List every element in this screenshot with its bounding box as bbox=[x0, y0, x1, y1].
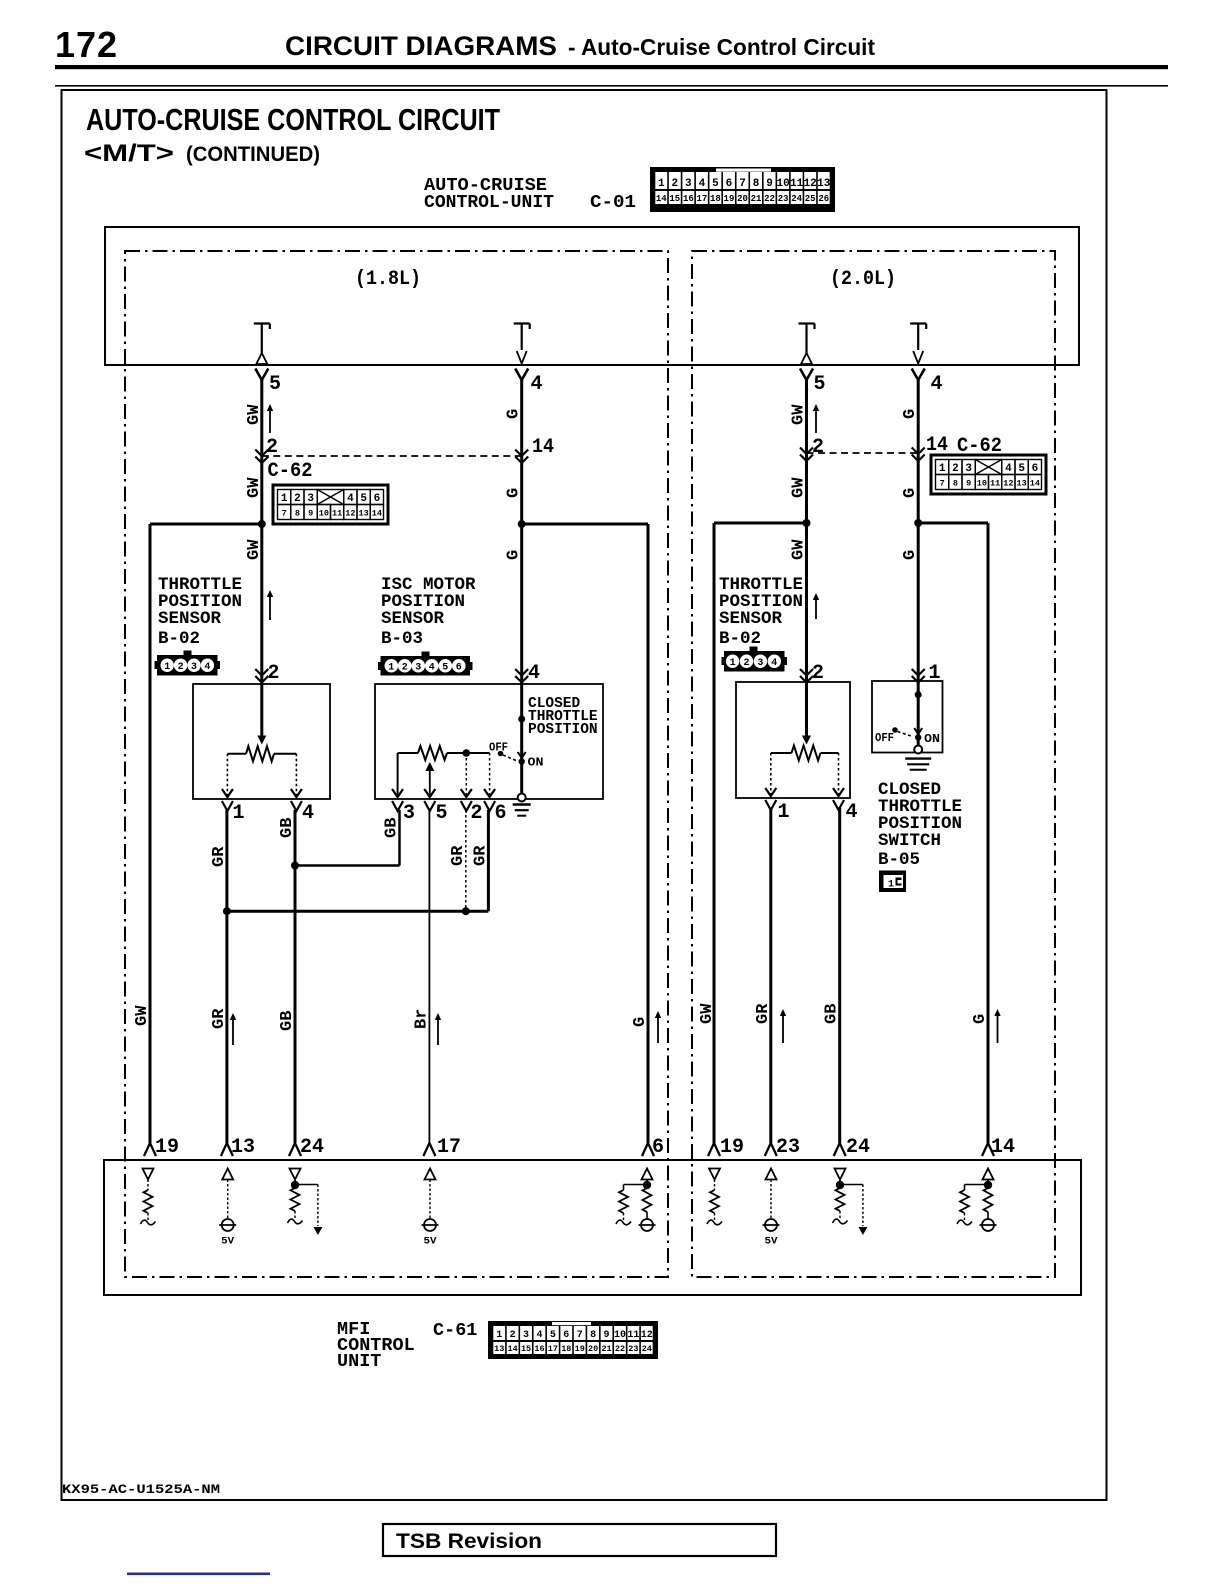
svg-text:24: 24 bbox=[642, 1344, 652, 1354]
svg-text:17: 17 bbox=[696, 194, 707, 204]
svg-text:10: 10 bbox=[977, 479, 987, 489]
svg-text:GW: GW bbox=[698, 1003, 717, 1024]
svg-text:8: 8 bbox=[295, 509, 300, 519]
svg-text:13: 13 bbox=[1017, 479, 1027, 489]
svg-text:6: 6 bbox=[1032, 463, 1039, 475]
svg-text:G: G bbox=[631, 1017, 650, 1027]
svg-text:1: 1 bbox=[778, 801, 790, 824]
svg-text:22: 22 bbox=[764, 194, 775, 204]
svg-text:C-61: C-61 bbox=[433, 1320, 477, 1341]
svg-text:GW: GW bbox=[245, 477, 264, 498]
svg-text:4: 4 bbox=[531, 373, 543, 396]
svg-text:1: 1 bbox=[929, 662, 941, 685]
svg-text:C-01: C-01 bbox=[590, 193, 636, 213]
svg-text:10: 10 bbox=[614, 1330, 626, 1341]
svg-text:8: 8 bbox=[753, 178, 760, 190]
svg-text:ON: ON bbox=[528, 756, 544, 770]
svg-text:12: 12 bbox=[1003, 479, 1013, 489]
svg-text:16: 16 bbox=[683, 194, 694, 204]
svg-text:5: 5 bbox=[360, 493, 367, 505]
svg-text:9: 9 bbox=[604, 1330, 610, 1341]
svg-text:21: 21 bbox=[601, 1344, 611, 1354]
svg-text:4: 4 bbox=[846, 801, 858, 824]
svg-text:B-02: B-02 bbox=[158, 629, 200, 649]
svg-text:1: 1 bbox=[730, 658, 736, 669]
svg-text:(1.8L): (1.8L) bbox=[355, 268, 421, 291]
svg-text:5: 5 bbox=[814, 373, 826, 396]
svg-text:6: 6 bbox=[495, 802, 507, 825]
svg-text:3: 3 bbox=[403, 802, 415, 825]
svg-text:G: G bbox=[901, 409, 920, 419]
svg-text:7: 7 bbox=[282, 509, 287, 519]
svg-text:4: 4 bbox=[1005, 463, 1012, 475]
svg-text:G: G bbox=[505, 550, 524, 560]
svg-text:4: 4 bbox=[302, 802, 314, 825]
svg-text:1: 1 bbox=[496, 1330, 502, 1341]
svg-text:10: 10 bbox=[777, 178, 790, 190]
svg-text:17: 17 bbox=[437, 1136, 461, 1159]
svg-text:4: 4 bbox=[347, 493, 354, 505]
svg-text:14: 14 bbox=[532, 436, 554, 459]
svg-text:21: 21 bbox=[751, 194, 762, 204]
svg-text:9: 9 bbox=[766, 178, 773, 190]
svg-text:7: 7 bbox=[739, 178, 746, 190]
svg-text:TSB Revision: TSB Revision bbox=[396, 1530, 542, 1553]
svg-text:26: 26 bbox=[818, 194, 829, 204]
svg-text:(2.0L): (2.0L) bbox=[830, 268, 896, 291]
svg-text:G: G bbox=[901, 488, 920, 498]
svg-text:13: 13 bbox=[817, 178, 831, 190]
svg-text:1: 1 bbox=[658, 178, 665, 190]
svg-text:GW: GW bbox=[133, 1005, 152, 1026]
svg-text:14: 14 bbox=[1030, 479, 1040, 489]
svg-text:18: 18 bbox=[710, 194, 721, 204]
svg-text:GW: GW bbox=[790, 477, 809, 498]
svg-text:- Auto-Cruise Control Circuit: - Auto-Cruise Control Circuit bbox=[568, 34, 875, 60]
svg-text:7: 7 bbox=[577, 1330, 583, 1341]
svg-text:GR: GR bbox=[449, 845, 468, 866]
svg-text:2: 2 bbox=[266, 436, 278, 459]
svg-text:1: 1 bbox=[281, 493, 288, 505]
svg-text:5: 5 bbox=[442, 662, 448, 673]
svg-text:15: 15 bbox=[669, 194, 680, 204]
svg-text:12: 12 bbox=[345, 509, 355, 519]
svg-text:5: 5 bbox=[1018, 463, 1025, 475]
svg-text:19: 19 bbox=[720, 1136, 744, 1159]
svg-text:5V: 5V bbox=[221, 1236, 235, 1248]
svg-text:SENSOR: SENSOR bbox=[158, 609, 222, 629]
svg-text:16: 16 bbox=[534, 1344, 544, 1354]
svg-text:23: 23 bbox=[628, 1344, 638, 1354]
svg-text:20: 20 bbox=[588, 1344, 598, 1354]
svg-text:14: 14 bbox=[508, 1344, 518, 1354]
svg-text:25: 25 bbox=[805, 194, 816, 204]
svg-text:5: 5 bbox=[436, 802, 448, 825]
svg-text:2: 2 bbox=[471, 802, 483, 825]
svg-text:12: 12 bbox=[641, 1330, 653, 1341]
svg-text:UNIT: UNIT bbox=[337, 1351, 381, 1372]
svg-text:24: 24 bbox=[300, 1136, 324, 1159]
svg-text:11: 11 bbox=[990, 479, 1000, 489]
svg-text:5V: 5V bbox=[424, 1236, 438, 1248]
svg-text:23: 23 bbox=[778, 194, 789, 204]
svg-text:3: 3 bbox=[965, 463, 972, 475]
svg-text:8: 8 bbox=[590, 1330, 596, 1341]
svg-text:6: 6 bbox=[456, 662, 462, 673]
svg-text:2: 2 bbox=[294, 493, 301, 505]
svg-text:3: 3 bbox=[415, 662, 421, 673]
svg-text:22: 22 bbox=[615, 1344, 625, 1354]
svg-text:G: G bbox=[505, 409, 524, 419]
svg-text:2: 2 bbox=[672, 178, 679, 190]
svg-text:11: 11 bbox=[332, 509, 342, 519]
svg-text:ON: ON bbox=[924, 732, 940, 746]
svg-text:14: 14 bbox=[656, 194, 667, 204]
svg-text:G: G bbox=[505, 488, 524, 498]
svg-text:1: 1 bbox=[233, 802, 245, 825]
svg-text:GW: GW bbox=[790, 404, 809, 425]
svg-text:7: 7 bbox=[940, 479, 945, 489]
svg-text:B-05: B-05 bbox=[878, 850, 920, 870]
svg-text:6: 6 bbox=[563, 1330, 569, 1341]
svg-text:4: 4 bbox=[931, 373, 943, 396]
svg-text:(CONTINUED): (CONTINUED) bbox=[186, 143, 320, 166]
svg-text:14: 14 bbox=[372, 509, 382, 519]
svg-text:POSITION: POSITION bbox=[528, 722, 598, 738]
svg-text:4: 4 bbox=[536, 1330, 542, 1341]
svg-text:4: 4 bbox=[528, 662, 540, 685]
svg-text:1: 1 bbox=[388, 662, 394, 673]
svg-text:13: 13 bbox=[231, 1136, 255, 1159]
svg-text:B-03: B-03 bbox=[381, 629, 423, 649]
svg-text:3: 3 bbox=[523, 1330, 529, 1341]
svg-text:2: 2 bbox=[402, 662, 408, 673]
svg-text:23: 23 bbox=[776, 1136, 800, 1159]
svg-text:6: 6 bbox=[374, 493, 381, 505]
svg-text:18: 18 bbox=[561, 1344, 571, 1354]
svg-text:11: 11 bbox=[627, 1330, 639, 1341]
svg-text:G: G bbox=[971, 1014, 990, 1024]
svg-text:5: 5 bbox=[269, 373, 281, 396]
svg-text:11: 11 bbox=[790, 178, 804, 190]
svg-text:1: 1 bbox=[164, 662, 170, 673]
svg-text:15: 15 bbox=[521, 1344, 531, 1354]
svg-text:2: 2 bbox=[510, 1330, 516, 1341]
svg-text:CONTROL-UNIT: CONTROL-UNIT bbox=[424, 193, 554, 213]
svg-text:4: 4 bbox=[699, 178, 706, 190]
svg-text:20: 20 bbox=[737, 194, 748, 204]
svg-text:4: 4 bbox=[429, 662, 435, 673]
svg-text:1: 1 bbox=[888, 880, 894, 891]
svg-text:5: 5 bbox=[712, 178, 719, 190]
svg-text:3: 3 bbox=[191, 662, 197, 673]
svg-text:9: 9 bbox=[966, 479, 971, 489]
svg-text:SENSOR: SENSOR bbox=[719, 609, 783, 629]
svg-text:2: 2 bbox=[952, 463, 959, 475]
svg-text:B-02: B-02 bbox=[719, 629, 761, 649]
svg-text:2: 2 bbox=[812, 436, 824, 459]
svg-text:10: 10 bbox=[319, 509, 329, 519]
svg-text:3: 3 bbox=[757, 658, 763, 669]
svg-text:GW: GW bbox=[245, 404, 264, 425]
svg-text:GW: GW bbox=[790, 539, 809, 560]
svg-text:C-62: C-62 bbox=[268, 460, 313, 483]
svg-text:G: G bbox=[901, 550, 920, 560]
svg-text:8: 8 bbox=[953, 479, 958, 489]
svg-text:SENSOR: SENSOR bbox=[381, 609, 445, 629]
svg-text:<M/T>: <M/T> bbox=[84, 140, 174, 167]
svg-text:19: 19 bbox=[724, 194, 735, 204]
svg-text:12: 12 bbox=[804, 178, 817, 190]
svg-text:19: 19 bbox=[575, 1344, 585, 1354]
svg-text:24: 24 bbox=[791, 194, 802, 204]
svg-text:2: 2 bbox=[268, 662, 280, 685]
svg-text:2: 2 bbox=[743, 658, 749, 669]
svg-text:1: 1 bbox=[939, 463, 946, 475]
svg-text:OFF: OFF bbox=[875, 731, 894, 745]
svg-text:AUTO-CRUISE CONTROL CIRCUIT: AUTO-CRUISE CONTROL CIRCUIT bbox=[86, 102, 500, 137]
svg-text:172: 172 bbox=[55, 24, 118, 65]
svg-text:2: 2 bbox=[812, 662, 824, 685]
svg-text:CIRCUIT DIAGRAMS: CIRCUIT DIAGRAMS bbox=[285, 31, 557, 61]
svg-text:6: 6 bbox=[726, 178, 733, 190]
svg-text:2: 2 bbox=[178, 662, 184, 673]
svg-text:13: 13 bbox=[494, 1344, 504, 1354]
svg-text:3: 3 bbox=[685, 178, 692, 190]
svg-text:19: 19 bbox=[155, 1136, 179, 1159]
svg-text:4: 4 bbox=[204, 662, 210, 673]
svg-text:4: 4 bbox=[771, 658, 777, 669]
svg-text:13: 13 bbox=[359, 509, 369, 519]
svg-text:3: 3 bbox=[307, 493, 314, 505]
svg-text:9: 9 bbox=[308, 509, 313, 519]
svg-text:KX95-AC-U1525A-NM: KX95-AC-U1525A-NM bbox=[62, 1482, 220, 1497]
svg-text:6: 6 bbox=[652, 1136, 664, 1159]
svg-text:5: 5 bbox=[550, 1330, 556, 1341]
svg-text:SWITCH: SWITCH bbox=[878, 831, 941, 851]
svg-text:GW: GW bbox=[245, 539, 264, 560]
svg-text:17: 17 bbox=[548, 1344, 558, 1354]
svg-text:14: 14 bbox=[991, 1136, 1015, 1159]
svg-text:24: 24 bbox=[846, 1136, 870, 1159]
svg-text:5V: 5V bbox=[765, 1236, 779, 1248]
